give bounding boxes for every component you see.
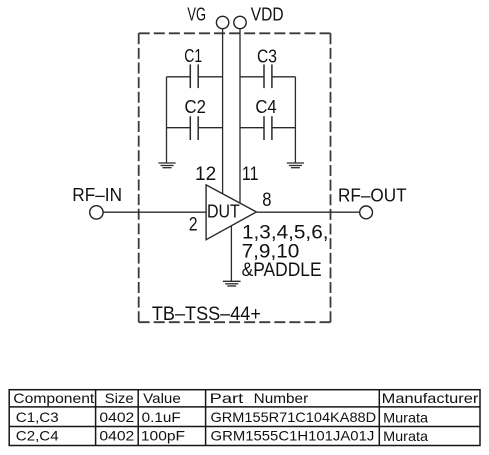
terminal VG — [216, 16, 228, 28]
table row divider line — [9, 426, 480, 428]
svg-text:Value: Value — [143, 390, 181, 406]
svg-text:Murata: Murata — [383, 428, 428, 444]
svg-text:GRM155R71C104KA88D: GRM155R71C104KA88D — [211, 409, 377, 425]
svg-text:0402: 0402 — [99, 428, 134, 444]
wire VDD to pin 11 — [239, 29, 241, 203]
table column line 4 — [378, 390, 380, 446]
svg-text:Size: Size — [105, 390, 134, 406]
svg-text:VDD: VDD — [251, 4, 284, 24]
svg-text:GRM1555C1H101JA01J: GRM1555C1H101JA01J — [211, 428, 375, 444]
dashed box TB-TSS-44+ outline — [139, 33, 331, 322]
table header bottom line — [9, 406, 480, 408]
svg-text:TB–TSS–44+: TB–TSS–44+ — [152, 304, 261, 325]
svg-text:C2: C2 — [185, 97, 206, 117]
svg-text:C4: C4 — [255, 97, 276, 117]
wire pin 8 to RF-OUT — [256, 211, 359, 213]
table column line 3 — [205, 390, 207, 446]
wire left ground rail — [166, 77, 168, 163]
wire C2 right — [198, 127, 222, 129]
svg-text:C3: C3 — [257, 46, 277, 66]
svg-text:2: 2 — [189, 215, 198, 236]
svg-text:Number: Number — [254, 390, 309, 406]
terminal RF-IN — [90, 206, 103, 219]
svg-text:8: 8 — [262, 190, 271, 211]
terminal RF-OUT — [360, 206, 373, 219]
wire C3 left — [240, 76, 264, 78]
svg-text:DUT: DUT — [207, 202, 240, 222]
wire DUT ground pin — [230, 226, 232, 281]
svg-text:12: 12 — [195, 164, 216, 185]
svg-text:C1,C3: C1,C3 — [16, 409, 59, 425]
svg-text:1,3,4,5,6,: 1,3,4,5,6, — [242, 223, 329, 244]
wire C1 right — [198, 76, 222, 78]
svg-text:&PADDLE: &PADDLE — [242, 260, 322, 281]
table column line 2 — [137, 390, 139, 446]
ground left — [158, 163, 175, 168]
wire C4 left — [240, 127, 264, 129]
svg-text:0402: 0402 — [99, 409, 134, 425]
ground DUT — [223, 281, 241, 286]
wire VG to pin 12 — [222, 29, 224, 194]
svg-text:Manufacturer: Manufacturer — [382, 390, 479, 406]
wire C3 right — [272, 76, 296, 78]
wire C2 left — [167, 127, 191, 129]
svg-text:C2,C4: C2,C4 — [16, 428, 59, 444]
svg-text:100pF: 100pF — [141, 428, 185, 444]
wire C4 right — [272, 127, 296, 129]
capacitor C3 — [264, 64, 272, 88]
svg-text:Component: Component — [13, 390, 94, 406]
svg-text:C1: C1 — [184, 46, 202, 66]
ground right — [287, 163, 304, 168]
table column line 1 — [95, 390, 97, 446]
svg-text:Part: Part — [210, 390, 244, 406]
svg-text:VG: VG — [187, 4, 206, 24]
svg-text:0.1uF: 0.1uF — [142, 409, 181, 425]
svg-text:RF–OUT: RF–OUT — [338, 185, 407, 205]
wire right ground rail — [294, 77, 296, 163]
svg-text:11: 11 — [242, 164, 259, 185]
terminal VDD — [234, 16, 246, 28]
wire C1 left — [167, 76, 191, 78]
table frame — [9, 390, 480, 446]
capacitor C1 — [190, 64, 198, 88]
wire RF-IN to pin 2 — [103, 211, 206, 213]
svg-text:Murata: Murata — [383, 409, 428, 425]
capacitor C4 — [264, 116, 272, 140]
capacitor C2 — [190, 116, 198, 140]
op-amp DUT triangle — [206, 185, 256, 240]
svg-text:RF–IN: RF–IN — [72, 185, 122, 205]
